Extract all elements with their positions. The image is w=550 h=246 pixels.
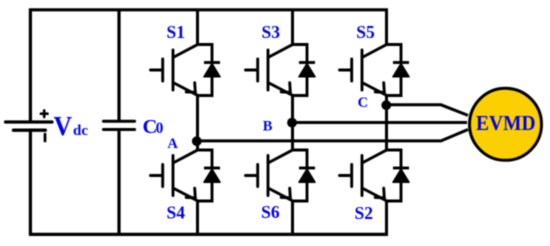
diode antiparallel with S3 [292,45,315,96]
label Co [143,116,164,138]
wire leg 2 phase segment [291,95,294,150]
wire phase A output to motor [198,130,469,141]
transistor S1 (IGBT) [151,45,198,95]
svg-text:S4: S4 [167,203,186,223]
svg-text:EVMD: EVMD [476,111,536,135]
svg-text:S1: S1 [167,22,185,42]
transistor S5 (IGBT) [340,45,387,95]
svg-text:A: A [167,136,178,152]
svg-text:B: B [263,118,273,134]
wire phase C output to motor [387,105,469,116]
svg-text:S6: S6 [261,202,280,222]
diode antiparallel with S4 [197,150,220,201]
wire leg 1 collector drop [196,10,199,45]
wire leg 3 phase segment [385,95,388,150]
wire capacitor branch [117,9,120,236]
svg-text:C: C [358,95,368,111]
diode antiparallel with S1 [197,45,220,96]
wire bottom DC bus [29,233,388,236]
label Vdc [54,110,89,141]
wire phase B output to motor [293,121,468,124]
svg-text:dc: dc [73,123,88,139]
capacitor Co [104,121,135,129]
node B junction dot [287,118,297,128]
svg-text:V: V [54,110,73,141]
diode antiparallel with S2 [386,150,409,201]
wire leg 1 phase segment [196,95,199,150]
svg-text:S3: S3 [262,22,281,42]
battery Vdc [6,110,53,141]
transistor S2 (IGBT) [340,150,387,200]
node C junction dot [381,100,391,110]
wire leg 1 emitter to bottom bus [196,201,199,235]
wire leg 3 collector drop [385,10,388,45]
motor EVMD (circle) [470,88,542,160]
diode antiparallel with S5 [386,45,409,96]
wire leg 2 emitter to bottom bus [291,201,294,235]
svg-text:0: 0 [156,120,164,137]
diode antiparallel with S6 [292,150,315,201]
svg-text:S5: S5 [356,22,375,42]
svg-text:S2: S2 [355,203,373,223]
wire top DC bus [29,8,388,11]
wire left rail (battery branch) [29,9,32,236]
wire leg 3 emitter to bottom bus [385,201,388,235]
node A junction dot [192,136,202,146]
wire leg 2 collector drop [291,10,294,45]
transistor S6 (IGBT) [246,150,293,200]
transistor S4 (IGBT) [151,150,198,200]
transistor S3 (IGBT) [246,45,293,95]
